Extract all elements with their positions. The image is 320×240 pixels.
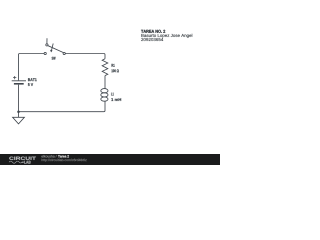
battery plus sign <box>13 76 16 79</box>
label SW <box>52 57 56 60</box>
switch SW left terminal <box>44 52 46 54</box>
switch SW upper stub wire <box>46 38 48 43</box>
footer CircuitLab logo: LAB <box>24 161 30 164</box>
label 5 V <box>28 83 33 86</box>
annotation: TAREA NO. 2 <box>141 30 165 33</box>
inductor L1 coil loop 3 <box>101 97 108 101</box>
wire: resistor to inductor lead <box>104 76 106 89</box>
wire: battery top lead up and right to switch <box>19 54 45 81</box>
battery BAT1 positive plate <box>12 80 26 82</box>
ground symbol <box>13 117 25 124</box>
annotation: Basurto Lopez Jose Angel <box>141 34 192 38</box>
label L1 <box>111 93 114 96</box>
switch SW arrowhead <box>50 50 53 53</box>
wire: battery bottom lead <box>18 85 20 112</box>
footer url text <box>42 159 87 162</box>
footer bar <box>0 154 220 165</box>
wire: inductor bottom lead and bottom return wire <box>19 101 106 112</box>
node: bottom-left junction <box>17 110 20 113</box>
switch SW lever <box>48 46 63 53</box>
switch SW actuation arrow <box>51 44 53 51</box>
switch SW upper throw terminal <box>46 44 48 46</box>
resistor R1 zigzag <box>102 59 108 76</box>
label 100 Ohm <box>111 69 118 72</box>
footer CircuitLab logo: CIRCUIT <box>9 157 36 160</box>
inductor L1 coil loop 1 <box>101 89 108 93</box>
footer CircuitLab logo: sine squiggle <box>9 161 23 163</box>
battery BAT1 negative plate <box>14 83 24 85</box>
annotation: 209203654 <box>141 38 163 41</box>
switch SW right terminal <box>63 52 65 54</box>
footer username <box>41 155 56 158</box>
label BAT1 <box>28 78 37 81</box>
wire: switch to resistor branch <box>65 54 105 59</box>
label 1 mH <box>111 98 121 101</box>
ground stub <box>18 112 20 118</box>
inductor L1 coil loop 2 <box>101 93 108 97</box>
label R1 <box>112 64 115 67</box>
footer schematic title <box>58 155 69 157</box>
